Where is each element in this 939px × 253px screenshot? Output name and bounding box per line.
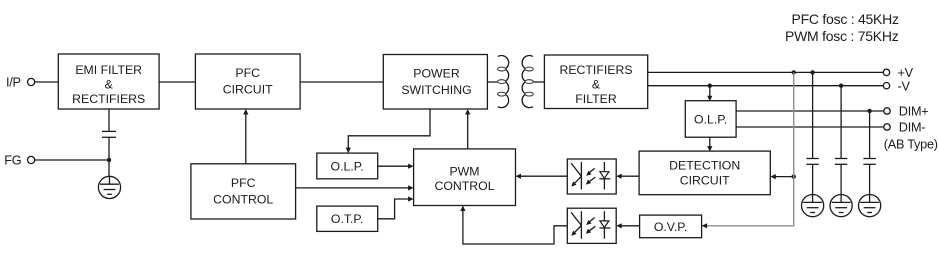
transformer T1 primary winding xyxy=(498,56,509,108)
wire POWER SWITCHING to O.L.P. left with arrow xyxy=(346,109,430,153)
block PFC CONTROL xyxy=(191,164,296,219)
ground earth C3 xyxy=(830,195,852,217)
wire O.V.P. to optocoupler U2 with arrow xyxy=(616,223,639,228)
ground earth C2 xyxy=(802,195,824,217)
svg-text:PWM fosc : 75KHz: PWM fosc : 75KHz xyxy=(785,28,899,44)
terminal -V xyxy=(883,79,910,93)
capacitor C4 (DIM Y-cap) xyxy=(863,111,875,195)
svg-text:DIM-: DIM- xyxy=(899,121,926,135)
wire PFC CONTROL to PWM CONTROL with arrow xyxy=(296,185,414,190)
block O.V.P. xyxy=(640,215,702,238)
wire optocoupler U1 to PWM CONTROL with arrow xyxy=(516,174,568,179)
svg-text:PFC: PFC xyxy=(235,66,260,80)
optocoupler U1 xyxy=(567,159,616,194)
node DIM+ junction xyxy=(867,109,871,113)
optocoupler U2 xyxy=(567,208,616,243)
svg-text:EMI FILTER: EMI FILTER xyxy=(75,63,142,77)
wire -V rail xyxy=(648,85,884,87)
wire -V to O.L.P. with arrow xyxy=(707,86,712,102)
wire PFC CIRCUIT to POWER SWITCHING xyxy=(300,81,383,83)
block O.L.P. output xyxy=(685,101,736,138)
svg-text:DIM+: DIM+ xyxy=(899,105,929,119)
ground earth C4 xyxy=(859,195,881,217)
transformer T1 secondary winding xyxy=(522,56,533,108)
svg-text:RECTIFIERS: RECTIFIERS xyxy=(559,63,632,77)
wire FG to ground node xyxy=(35,159,109,161)
svg-text:FILTER: FILTER xyxy=(575,92,617,106)
block O.T.P. xyxy=(317,206,378,231)
svg-text:+V: +V xyxy=(898,66,914,80)
wire PFC CONTROL to PFC CIRCUIT with arrow xyxy=(243,109,248,164)
wire O.L.P. to PWM CONTROL with arrow xyxy=(378,164,414,169)
wire EMI to PFC CIRCUIT xyxy=(159,81,195,83)
svg-text:SWITCHING: SWITCHING xyxy=(401,83,471,97)
ground FG earth xyxy=(98,160,120,198)
block PFC CIRCUIT xyxy=(195,54,300,109)
block POWER SWITCHING xyxy=(383,55,487,110)
svg-text:CIRCUIT: CIRCUIT xyxy=(680,173,730,187)
wire optocoupler U2 to PWM CONTROL with arrow xyxy=(460,206,567,245)
svg-text:FG: FG xyxy=(4,154,21,168)
block RECTIFIERS & FILTER xyxy=(544,55,647,109)
terminal I/P xyxy=(6,76,35,90)
node +V cap junction xyxy=(810,70,814,74)
svg-text:RECTIFIERS: RECTIFIERS xyxy=(72,92,145,106)
wire I/P to EMI xyxy=(35,81,59,83)
capacitor C3 (-V Y-cap) xyxy=(835,86,847,195)
svg-text:PFC fosc : 45KHz: PFC fosc : 45KHz xyxy=(792,11,900,27)
svg-text:O.V.P.: O.V.P. xyxy=(654,220,688,234)
capacitor C2 (+V Y-cap) xyxy=(806,72,818,194)
wire POWER SWITCHING to transformer xyxy=(487,81,498,83)
wire O.L.P. to DETECTION CIRCUIT with arrow xyxy=(707,137,712,151)
svg-text:I/P: I/P xyxy=(6,76,21,90)
node -V OLP junction xyxy=(708,84,712,88)
node feedback junction xyxy=(792,174,796,178)
svg-text:&: & xyxy=(105,77,114,91)
svg-text:PWM: PWM xyxy=(449,164,479,178)
wire PWM CONTROL to POWER SWITCHING with arrow xyxy=(465,109,470,149)
svg-text:(AB Type): (AB Type) xyxy=(884,137,938,151)
block O.L.P. pwm xyxy=(317,153,378,179)
wire +V feedback down to O.V.P. (gray) xyxy=(705,72,794,225)
wire O.T.P. to PWM CONTROL with arrow xyxy=(378,196,414,218)
wire transformer to RECTIFIERS & FILTER xyxy=(533,81,544,83)
svg-text:O.T.P.: O.T.P. xyxy=(331,212,364,226)
svg-text:PFC: PFC xyxy=(231,176,256,190)
wire O.L.P. to DIM- xyxy=(736,126,884,128)
svg-text:CIRCUIT: CIRCUIT xyxy=(223,82,273,96)
block EMI FILTER & RECTIFIERS xyxy=(58,54,159,109)
node +V feedback junction xyxy=(792,70,796,74)
svg-text:CONTROL: CONTROL xyxy=(213,193,273,207)
arrow into O.V.P. xyxy=(702,223,708,228)
terminal DIM+ xyxy=(884,105,929,119)
block PWM CONTROL xyxy=(414,149,516,206)
wire feedback node to DETECTION CIRCUIT with arrow xyxy=(770,174,793,179)
capacitor C1 input Y-cap xyxy=(102,109,116,160)
svg-text:O.L.P.: O.L.P. xyxy=(331,159,364,173)
svg-text:POWER: POWER xyxy=(413,67,460,81)
terminal DIM- xyxy=(884,121,926,135)
wire +V rail xyxy=(648,71,884,73)
node FG junction xyxy=(107,158,111,162)
block DETECTION CIRCUIT xyxy=(639,151,770,195)
svg-text:O.L.P.: O.L.P. xyxy=(694,112,727,126)
svg-text:-V: -V xyxy=(898,79,911,93)
svg-text:DETECTION: DETECTION xyxy=(669,158,740,172)
node -V cap junction xyxy=(839,84,843,88)
wire DETECTION CIRCUIT to optocoupler U1 with arrow xyxy=(616,174,639,179)
terminal +V xyxy=(883,66,913,80)
svg-text:&: & xyxy=(592,78,601,92)
wire O.L.P. to DIM+ xyxy=(736,110,884,112)
terminal FG xyxy=(4,154,35,168)
svg-text:CONTROL: CONTROL xyxy=(434,179,494,193)
